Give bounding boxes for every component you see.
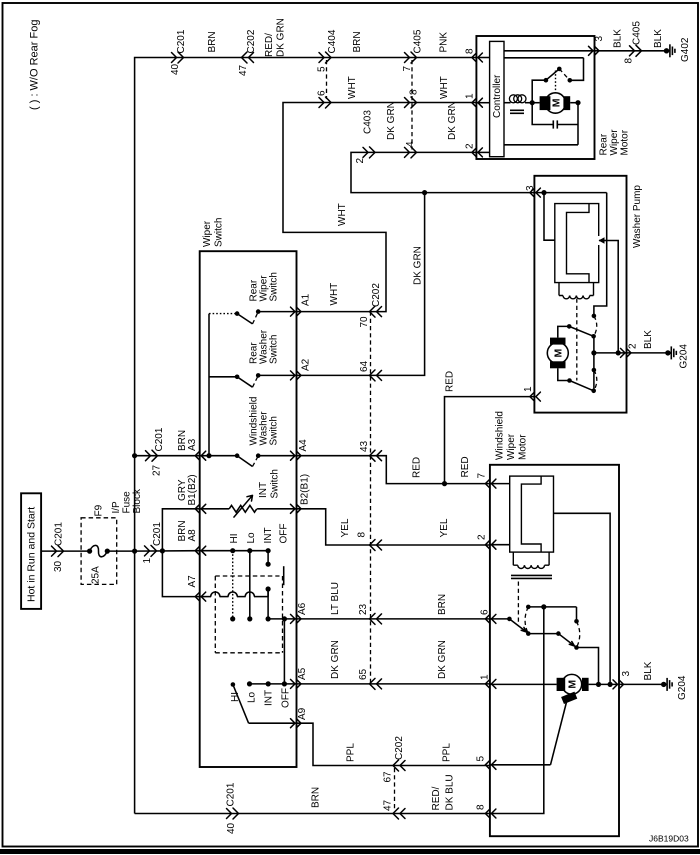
- svg-text:Hot in Run and Start: Hot in Run and Start: [26, 507, 38, 602]
- controller pin labels: [465, 48, 476, 149]
- svg-text:A2: A2: [301, 358, 312, 371]
- controller U1: [490, 41, 504, 156]
- C201 connector pin 27 to wiper switch A3: [135, 427, 200, 476]
- junction on bus at C201-27 tap: [132, 453, 137, 458]
- wire: rear washer switch to pin A2: [258, 374, 296, 376]
- svg-text:BLK: BLK: [613, 29, 624, 48]
- park switch left arm (pin 6): [490, 617, 531, 636]
- pump winding box with scallops: [559, 283, 594, 299]
- svg-text:3: 3: [621, 671, 632, 677]
- svg-text:Switch: Switch: [269, 416, 280, 445]
- svg-text:I/P: I/P: [111, 501, 122, 514]
- wire labels RED: [412, 371, 472, 478]
- svg-text:B2(B1): B2(B1): [300, 474, 311, 505]
- svg-text:Lo: Lo: [246, 532, 257, 544]
- svg-text:LT BLU: LT BLU: [330, 582, 341, 615]
- svg-text:A7: A7: [187, 575, 198, 588]
- rear washer switch: [235, 373, 261, 387]
- wire label BRN (bottom bus): [311, 787, 322, 808]
- YEL net: B2(B1) to wiper motor pin 2: [297, 509, 490, 545]
- svg-text:5: 5: [476, 756, 487, 762]
- svg-text:WHT: WHT: [329, 283, 340, 306]
- rear motor pins 8 1 2 chevrons: [472, 53, 483, 157]
- connector C201 pin 40 (bottom): [226, 782, 239, 834]
- motor right side to controller bottom: [504, 100, 581, 145]
- svg-text:C201: C201: [154, 427, 165, 451]
- A7 wire with crossover hops: [200, 586, 271, 596]
- svg-text:BLK: BLK: [643, 330, 654, 349]
- svg-text:8: 8: [476, 804, 487, 810]
- pin 5 row and slant wire to third brush: [490, 701, 567, 765]
- controller output to pin 3 (ground line): [504, 50, 595, 52]
- dashed throw arcs: [525, 607, 528, 634]
- svg-text:C201: C201: [54, 522, 65, 546]
- HI column (dotted): [230, 551, 235, 622]
- svg-text:A4: A4: [298, 439, 309, 452]
- svg-text:67: 67: [383, 771, 394, 783]
- pump switch common vertical and ground row: [591, 336, 626, 391]
- svg-text:64: 64: [359, 360, 370, 372]
- svg-text:DK BLU: DK BLU: [445, 774, 456, 810]
- svg-text:J6B19D03: J6B19D03: [649, 834, 689, 844]
- washer pump pins 3 1 (left) 2 (right): [525, 185, 540, 197]
- svg-text:47: 47: [238, 64, 249, 76]
- svg-text:4: 4: [405, 141, 416, 147]
- wire: Hot box to fuse F9: [41, 550, 90, 552]
- BLK wire to C405-8 and G402: [595, 21, 667, 64]
- svg-text:Wiper: Wiper: [506, 433, 517, 460]
- INT contact stub: [266, 551, 271, 567]
- INT column to A6 row: [266, 589, 271, 622]
- svg-text:1: 1: [142, 558, 153, 564]
- svg-text:C405: C405: [413, 29, 424, 53]
- coil output stub to park switch riser: [554, 513, 613, 687]
- label Rear Washer Switch: [249, 329, 280, 364]
- svg-text:Switch: Switch: [269, 335, 280, 364]
- svg-text:C404: C404: [327, 29, 338, 53]
- svg-text:2: 2: [355, 158, 366, 164]
- svg-text:PPL: PPL: [346, 743, 357, 762]
- svg-text:43: 43: [359, 440, 370, 452]
- svg-text:47: 47: [383, 799, 394, 811]
- wire label DK GRN (branch riser): [413, 246, 424, 285]
- wire label PNK: [439, 32, 450, 53]
- wiper motor pins: 7 2 6 1 5 8 (left) 3 (right): [477, 473, 496, 489]
- svg-text:G402: G402: [680, 37, 691, 62]
- svg-text:OFF: OFF: [281, 688, 292, 708]
- svg-text:Wiper: Wiper: [202, 220, 213, 247]
- DK GRN net: controller pin 2 to washer pump pin 3: [351, 152, 534, 192]
- svg-text:YEL: YEL: [340, 518, 351, 537]
- windshield washer switch: [200, 453, 297, 466]
- wire labels WHT (top run): [347, 76, 450, 99]
- note: W/O Rear Fog legend: [29, 20, 41, 110]
- svg-text:A9: A9: [297, 707, 308, 720]
- wiper switch pins (right edge): [291, 293, 312, 316]
- park switch mechanical dashed link: [517, 582, 519, 624]
- riser to ground side: [607, 241, 621, 356]
- DK GRN net: A5 to wiper motor pin 1: [297, 640, 490, 684]
- OFF contact bar: [283, 566, 285, 585]
- svg-text:INT: INT: [258, 482, 269, 498]
- document number: [649, 834, 689, 844]
- svg-text:8: 8: [357, 532, 368, 538]
- svg-text:F9: F9: [94, 504, 105, 516]
- wiper motor M: [557, 674, 589, 704]
- pump port arrow: [599, 237, 607, 243]
- wire label BRN (top bus): [207, 31, 218, 52]
- controller pin stubs 8 1 2: [476, 58, 489, 153]
- svg-text:23: 23: [358, 603, 369, 615]
- svg-text:1: 1: [480, 674, 491, 680]
- wire label BRN (after C404): [352, 31, 363, 52]
- wash signal riser from pin 8: [490, 607, 544, 814]
- svg-text:Switch: Switch: [270, 469, 281, 498]
- LT BLU net: A6 to wiper motor pin 6: [297, 582, 490, 619]
- rear motor pin 3: [589, 36, 606, 56]
- rear wiper switch: [235, 309, 261, 324]
- pump changeover switch lower arm: [558, 368, 596, 393]
- svg-text:M: M: [553, 349, 565, 358]
- rear motor inductor: [504, 95, 540, 103]
- connector C202 pin 65: [358, 668, 382, 689]
- svg-text:Lo: Lo: [247, 691, 258, 703]
- bottom bus wire BRN / RED-DK BLU to wiper motor pin 8: [135, 813, 490, 815]
- svg-text:8: 8: [465, 48, 476, 54]
- ground wire BLK to G204 (washer pump): [627, 330, 668, 353]
- wire: park switch to motor/ground row: [577, 648, 602, 688]
- svg-text:2: 2: [465, 143, 476, 149]
- svg-text:Washer Pump: Washer Pump: [632, 185, 643, 248]
- fuse F9 25A: [87, 504, 110, 584]
- stub to rear wiper switch (dotted): [209, 313, 237, 315]
- rear park switch arm: [546, 67, 572, 83]
- rear wiper motor box: [476, 36, 594, 159]
- svg-text:2: 2: [477, 534, 488, 540]
- connector C202 pin 23: [358, 603, 382, 624]
- svg-text:C201: C201: [226, 782, 237, 806]
- wire label RED/DK BLU: [431, 774, 456, 810]
- svg-text:PPL: PPL: [442, 743, 453, 762]
- label Windshield Wiper Motor: [495, 411, 529, 460]
- wire label WHT (riser): [337, 203, 348, 226]
- svg-text:BRN: BRN: [207, 31, 218, 52]
- wire: fuse to left bus: [107, 550, 134, 552]
- left drop to pump body: [544, 193, 555, 241]
- svg-text:INT: INT: [264, 690, 275, 706]
- svg-text:BLK: BLK: [653, 29, 664, 48]
- washer pump motor M: [547, 338, 568, 369]
- ground wire BLK to G204 (wiper motor): [619, 661, 664, 684]
- junction: RED split: [442, 481, 447, 486]
- label Windshield Washer Switch: [249, 397, 280, 446]
- svg-text:B1(B2): B1(B2): [187, 474, 198, 505]
- labels HI Lo INT OFF (upper): [229, 524, 290, 544]
- svg-text:Block: Block: [132, 488, 143, 513]
- svg-text:7: 7: [477, 473, 488, 479]
- winding coil box with scallops: [513, 552, 549, 568]
- svg-text:DK GRN: DK GRN: [413, 246, 424, 285]
- svg-text:C202: C202: [394, 736, 405, 760]
- washer pump box: [534, 176, 626, 413]
- INT switch variable resistor: [200, 495, 297, 517]
- rear motor M: [540, 93, 571, 113]
- A6 row inside: [268, 616, 296, 621]
- fuse block I/P Fuse Block (dashed): [81, 488, 143, 584]
- svg-text:YEL: YEL: [439, 518, 450, 537]
- connector C405 pins 7/8/4 with dashed link: [402, 29, 424, 158]
- svg-text:G204: G204: [679, 344, 690, 369]
- label Rear Wiper Switch: [249, 272, 280, 301]
- svg-text:65: 65: [358, 668, 369, 680]
- svg-text:RED/: RED/: [431, 786, 442, 810]
- ground G204 (washer pump): [665, 344, 689, 369]
- wiper switch feed vertical (A3 row to rear switches): [206, 314, 211, 459]
- riser: feed to pump port and switch: [592, 193, 607, 319]
- label Rear Wiper Motor: [599, 129, 631, 156]
- svg-text:6: 6: [480, 609, 491, 615]
- rear motor inductor core: [510, 110, 524, 113]
- connector C403 pin 2: [355, 110, 375, 164]
- wire label WHT (A1 segment): [329, 283, 340, 306]
- svg-text:25A: 25A: [91, 566, 102, 584]
- svg-text:WHT: WHT: [337, 203, 348, 226]
- svg-text:40: 40: [226, 822, 237, 834]
- wire: rear wiper switch to pin A1: [258, 311, 296, 313]
- svg-text:3: 3: [525, 185, 536, 191]
- svg-text:BLK: BLK: [643, 661, 654, 680]
- PPL net: A9 to wiper motor pin 5: [297, 723, 490, 765]
- junction on bus at C201-1 tap: [132, 549, 137, 554]
- svg-text:WHT: WHT: [347, 76, 358, 99]
- svg-text:BRN: BRN: [311, 787, 322, 808]
- svg-text:C202: C202: [371, 283, 382, 307]
- svg-text:A8: A8: [187, 529, 198, 542]
- svg-text:C201: C201: [176, 29, 187, 53]
- park switch right arm: [528, 631, 579, 650]
- svg-text:Wiper: Wiper: [609, 129, 620, 156]
- wire labels DK GRN (controller run): [386, 101, 458, 140]
- svg-text:G204: G204: [677, 675, 688, 700]
- svg-text:DK GRN: DK GRN: [276, 18, 287, 57]
- svg-text:WHT: WHT: [439, 76, 450, 99]
- connector C404 pin 5/6 with dashed link: [317, 29, 339, 108]
- label INT Switch: [258, 469, 281, 498]
- ground G402: [664, 37, 691, 62]
- svg-text:C202: C202: [246, 29, 257, 53]
- pump changeover switch upper arm: [558, 324, 596, 339]
- wiper switch pins (left edge): A3 B1(B2) A8 A7: [195, 451, 206, 460]
- svg-text:M: M: [550, 98, 562, 107]
- washer pump pin 3 feed row: [534, 190, 606, 195]
- wire label RED/DK GRN: [264, 18, 287, 57]
- Lo column: [247, 551, 252, 622]
- connector C202 pin 70: [359, 283, 382, 328]
- connector C202 pin 43: [359, 440, 382, 461]
- svg-text:PNK: PNK: [439, 32, 450, 53]
- svg-text:A1: A1: [301, 293, 312, 306]
- connector C201 pin 30: [52, 522, 65, 572]
- svg-text:Rear: Rear: [599, 133, 610, 155]
- C201 connector pin 1 to wiper switch A8/B1/A7 feed: [135, 522, 200, 564]
- DK GRN branch to C202-64 / wiper switch A2: [297, 193, 425, 376]
- pump mechanical dashed link: [576, 299, 578, 381]
- pump body nested rectangles: [555, 204, 599, 283]
- svg-text:Switch: Switch: [214, 218, 225, 247]
- windshield wiper motor box: [490, 465, 619, 836]
- connector C202 pin 8: [357, 532, 382, 551]
- wiper selector upper wafer: A8 row: [200, 548, 271, 553]
- svg-text:Motor: Motor: [620, 129, 631, 155]
- svg-text:A3: A3: [187, 438, 198, 451]
- lower wafer A5 row contacts: [247, 681, 297, 686]
- svg-text:DK GRN: DK GRN: [437, 640, 448, 679]
- svg-text:BRN: BRN: [437, 594, 448, 615]
- svg-text:( ) : W/O Rear Fog: ( ) : W/O Rear Fog: [29, 20, 41, 110]
- svg-text:C403: C403: [363, 110, 374, 134]
- label Wiper Switch: [202, 218, 225, 247]
- svg-text:M: M: [567, 680, 579, 689]
- svg-text:8: 8: [624, 58, 635, 64]
- svg-text:RED/: RED/: [264, 33, 275, 57]
- wiper switch box: [200, 251, 297, 767]
- svg-text:A5: A5: [297, 667, 308, 680]
- connector C202 pin 47 (top): [238, 29, 257, 76]
- pin 1 row to motor: [490, 683, 619, 685]
- selector gang dashed box: [215, 576, 282, 653]
- labels HI Lo INT OFF (lower): [230, 688, 292, 708]
- feed branch to B1(B2) and A7: [160, 509, 200, 597]
- svg-text:Windshield: Windshield: [495, 411, 506, 460]
- WHT net: wiper switch A1 to controller pin 1: [283, 103, 476, 312]
- svg-text:A6: A6: [297, 602, 308, 615]
- svg-text:Fuse: Fuse: [122, 491, 133, 514]
- svg-text:INT: INT: [263, 527, 274, 543]
- label Washer Pump: [632, 185, 643, 248]
- svg-text:HI: HI: [229, 534, 240, 544]
- winding core lines: [511, 575, 552, 578]
- left vertical bus wire (BRN feed): [135, 58, 477, 814]
- controller park sense line: [504, 57, 584, 59]
- svg-text:DK GRN: DK GRN: [447, 101, 458, 140]
- junction: washer feed split: [422, 190, 427, 195]
- svg-text:RED: RED: [445, 371, 456, 392]
- svg-text:Motor: Motor: [518, 434, 529, 460]
- stub to rear washer switch: [209, 376, 237, 378]
- connector C202 pins 67/47 (bottom, dashed link): [383, 736, 406, 819]
- wire labels YEL: [340, 518, 450, 537]
- svg-text:RED: RED: [460, 456, 471, 477]
- svg-text:DK GRN: DK GRN: [330, 640, 341, 679]
- connector C202 pin 64: [359, 360, 382, 380]
- svg-text:70: 70: [359, 316, 370, 328]
- svg-text:Switch: Switch: [269, 272, 280, 301]
- svg-text:1: 1: [523, 386, 534, 392]
- svg-text:C201: C201: [152, 522, 163, 546]
- svg-text:27: 27: [152, 464, 163, 476]
- svg-text:6: 6: [317, 90, 328, 96]
- svg-text:40: 40: [170, 63, 181, 75]
- capacitor across motor: [532, 103, 578, 129]
- svg-text:BRN: BRN: [352, 31, 363, 52]
- wiper motor armature winding symbol: [490, 476, 554, 552]
- svg-text:30: 30: [53, 560, 64, 572]
- park contact to sense line: [570, 58, 584, 81]
- svg-text:DK GRN: DK GRN: [386, 101, 397, 140]
- rear park switch dashed link to motor: [555, 71, 557, 93]
- svg-text:8: 8: [409, 89, 420, 95]
- top bus labels and connectors: C201 40: [170, 29, 187, 75]
- lower wafer HI contact and arm to A9: [231, 682, 297, 723]
- svg-text:RED: RED: [412, 457, 423, 478]
- svg-text:C405: C405: [632, 21, 643, 45]
- svg-text:HI: HI: [230, 692, 241, 702]
- park switch upper contact and wash feed row: [526, 604, 579, 623]
- wire labels BRN A3: [177, 430, 198, 451]
- svg-text:Controller: Controller: [492, 74, 503, 118]
- junction to park switch: [530, 78, 549, 105]
- ground G204 (wiper motor): [661, 675, 688, 700]
- C202 main dashed connector line: [370, 312, 372, 684]
- RED net: A4 to washer pump pin 1 and wiper motor pin 7: [297, 456, 490, 484]
- svg-text:2: 2: [628, 343, 639, 349]
- svg-text:3: 3: [594, 36, 605, 42]
- OFF column to A5 row: [282, 619, 287, 687]
- svg-text:1: 1: [465, 93, 476, 99]
- svg-text:OFF: OFF: [279, 524, 290, 544]
- power source box: Hot in Run and Start: [21, 493, 41, 609]
